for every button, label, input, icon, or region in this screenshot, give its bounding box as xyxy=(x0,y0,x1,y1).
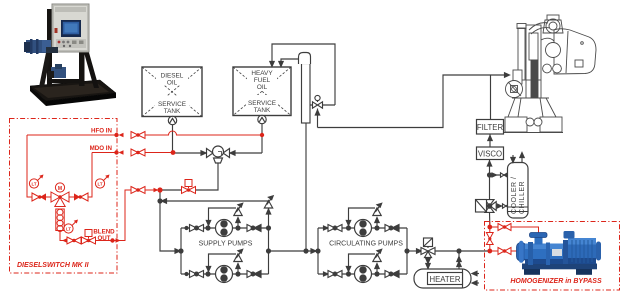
wire: suction header vertical xyxy=(160,190,177,251)
A-frame xyxy=(508,98,556,117)
motor xyxy=(568,238,596,264)
svg-text:TANK: TANK xyxy=(254,107,271,114)
HFO service tank xyxy=(233,67,291,116)
top valve housing xyxy=(543,20,563,33)
arrow into changeover valve left xyxy=(201,151,206,155)
base and feet xyxy=(505,117,527,132)
node: diesel tank drop xyxy=(171,150,176,155)
three-way valve cooler bottom xyxy=(476,200,497,213)
wire: diesel outlet drop xyxy=(172,125,174,153)
wire: HFO internal drop xyxy=(27,135,32,197)
svg-text:MDO IN: MDO IN xyxy=(90,145,113,152)
homogenizer dashed enclosure xyxy=(485,222,620,291)
frame posts xyxy=(47,9,52,86)
node: heater outlet tee xyxy=(457,249,461,253)
valve homogenizer feed xyxy=(498,224,511,231)
svg-text:SERVICE: SERVICE xyxy=(158,101,186,108)
wire: return branch from homogenizer xyxy=(490,250,519,252)
wire: deaerator drop to main line xyxy=(305,123,307,249)
base frame xyxy=(522,264,597,270)
screen xyxy=(61,20,81,37)
wire: HFO IN line xyxy=(27,134,117,136)
wire: engine return line xyxy=(318,75,508,128)
valve blend 1 xyxy=(67,237,81,244)
arrow into changeover valve right xyxy=(230,151,235,155)
node: suction header top xyxy=(158,199,162,203)
wire: cooler header riser xyxy=(489,160,491,200)
pump body xyxy=(525,244,563,265)
wire: circulating top branch xyxy=(318,227,407,229)
wire: supply top branch xyxy=(181,227,269,229)
temperature transmitter LT left xyxy=(29,175,43,189)
temperature transmitter LT right xyxy=(95,175,109,189)
valve MDO IN xyxy=(131,149,145,156)
node: blend out at box edge xyxy=(110,238,114,242)
arrow into heater xyxy=(426,259,430,264)
valve mixing left xyxy=(32,193,46,201)
steam connection arrows xyxy=(472,271,479,285)
wire: circulating suction manifold xyxy=(317,228,319,274)
valve circ pump 2 inlet xyxy=(324,271,343,278)
node: MDO IN at box edge xyxy=(114,150,118,154)
cooler top stubs xyxy=(511,153,524,163)
valve circ pump 2 outlet xyxy=(385,271,399,278)
static mixer xyxy=(56,209,64,232)
svg-text:LT: LT xyxy=(31,182,36,187)
wire: supply suction manifold xyxy=(180,228,182,274)
wire: mixer to blend out line xyxy=(60,231,66,241)
coupling flange xyxy=(563,240,568,264)
wire: visco to filter xyxy=(489,134,491,147)
right block xyxy=(554,29,596,74)
red labels xyxy=(17,128,115,270)
node: circulating manifold inlet xyxy=(316,249,320,253)
valve circ pump 1 inlet xyxy=(324,225,343,232)
VISCO box xyxy=(477,147,504,160)
wire: vent recirculation loop to tank xyxy=(272,44,335,105)
svg-text:LT: LT xyxy=(66,227,71,232)
valve homogenizer return xyxy=(498,248,511,255)
svg-text:HOMOGENIZER in BYPASS: HOMOGENIZER in BYPASS xyxy=(510,278,602,285)
wire: feed branch to homogenizer xyxy=(490,227,539,233)
pump P4 circulating xyxy=(355,266,372,283)
relief valve supply bypass xyxy=(264,196,273,228)
wire: pump overflow return line xyxy=(162,200,269,202)
wire: main line supply to circulating xyxy=(269,250,319,252)
svg-text:OIL: OIL xyxy=(167,80,178,87)
suction flange xyxy=(517,243,527,262)
wire: diesel junction to changeover valve xyxy=(173,152,206,154)
arrow into engine xyxy=(505,73,510,77)
node: HFO IN at box edge xyxy=(114,133,118,137)
svg-text:SUPPLY PUMPS: SUPPLY PUMPS xyxy=(199,241,253,248)
arrow MDO IN xyxy=(119,150,124,154)
wire: blend out exit xyxy=(96,190,132,241)
relief valve circ pump 1 loop xyxy=(346,203,381,228)
wire: discharge to heater valve xyxy=(407,250,421,252)
svg-text:LT: LT xyxy=(97,182,102,187)
node: cooler top tee xyxy=(488,173,492,177)
node: supply manifold inlet xyxy=(179,249,183,253)
wire: circulating discharge manifold xyxy=(406,228,408,274)
top inlet branch xyxy=(535,237,543,245)
arrow into HFO tank xyxy=(270,62,274,67)
diesel oil service tank xyxy=(142,67,202,117)
relief valve pump 2 loop xyxy=(206,249,242,274)
wire: MDO IN to diesel tank drop xyxy=(145,152,173,154)
valve supply pump 2 inlet xyxy=(185,271,204,278)
svg-text:DIESEL: DIESEL xyxy=(161,73,184,80)
node: HFO tank drop xyxy=(260,133,264,137)
valve dieselswitch bypass with actuator xyxy=(182,180,196,194)
HFO tank outlet strainer xyxy=(258,115,266,123)
wire: circulating bottom branch xyxy=(318,273,407,275)
cylinder unit xyxy=(518,28,525,80)
valve supply pump 1 outlet xyxy=(247,225,261,232)
valve blend 2 with actuator xyxy=(82,230,96,245)
valve mixing right xyxy=(74,193,88,201)
deaerator column xyxy=(299,53,311,124)
buttons xyxy=(56,39,86,48)
svg-text:TANK: TANK xyxy=(164,108,181,115)
base platform xyxy=(30,80,116,101)
wire: filter to engine feed riser xyxy=(490,75,492,120)
node: pump 1 inlet xyxy=(206,226,210,230)
svg-text:SERVICE: SERVICE xyxy=(248,100,276,107)
node: pump 1 outlet xyxy=(236,226,240,230)
valve cooler top xyxy=(492,173,508,177)
svg-text:HFO IN: HFO IN xyxy=(91,128,112,135)
relief valve pump 1 loop xyxy=(206,203,242,228)
svg-text:M: M xyxy=(58,186,62,192)
wire: drop into heater inlet xyxy=(427,258,429,270)
three-way temperature control valve xyxy=(421,238,435,258)
arrow on main line xyxy=(311,249,316,253)
arrow up into visco xyxy=(487,161,491,166)
motor mixing valve M xyxy=(51,183,69,207)
wire: heater outlet riser xyxy=(458,251,460,269)
relief valve circ pump 2 loop xyxy=(346,249,381,274)
photo: engine section drawing xyxy=(503,15,596,133)
node: circ pump 1 outlet xyxy=(375,226,379,230)
svg-text:VISCO: VISCO xyxy=(478,149,502,158)
arrow into suction node xyxy=(154,188,159,192)
homogenizer machine photo xyxy=(517,231,602,275)
wire: deaerator cap overflow to tank xyxy=(281,59,299,62)
node: pump 2 outlet xyxy=(236,272,240,276)
node: deaerator drop joins xyxy=(304,249,308,253)
wire: heater valve to homogenizer box xyxy=(435,250,488,252)
wire: bypass segment to suction node xyxy=(162,189,181,191)
node: circ pump 2 inlet xyxy=(347,272,351,276)
small pump mid xyxy=(51,67,66,78)
cooler chiller vessel xyxy=(508,163,529,219)
node: circ pump 2 outlet xyxy=(375,272,379,276)
arrow on blend line xyxy=(62,238,67,242)
svg-text:HEAVY: HEAVY xyxy=(251,70,273,77)
arrow into heater valve xyxy=(417,249,422,253)
node: supply manifold top xyxy=(267,226,271,230)
pump left xyxy=(26,40,48,53)
temperature transmitter LT blend xyxy=(64,220,78,234)
changeover three-way valve xyxy=(207,146,230,163)
svg-text:COOLER /: COOLER / xyxy=(511,177,518,214)
control cabinet xyxy=(52,4,89,52)
homogenizer bypass unit xyxy=(485,222,620,291)
node: homogenizer feed tee xyxy=(487,225,492,230)
node: pump 2 inlet xyxy=(206,272,210,276)
wire: MDO IN line xyxy=(92,152,117,154)
pump P1 supply xyxy=(216,220,233,237)
svg-text:HEATER: HEATER xyxy=(429,275,460,284)
valve HFO IN xyxy=(131,132,145,139)
valve cooler bottom xyxy=(497,204,509,208)
heater vessel xyxy=(414,269,471,288)
wire: return riser into vent valve xyxy=(317,109,319,128)
arrow on overflow return xyxy=(162,199,167,203)
roller wheel xyxy=(513,70,522,84)
node: supply discharge xyxy=(267,249,271,253)
node: homogenizer return tee xyxy=(487,249,492,254)
text labels black xyxy=(158,70,526,284)
arrow out of heater xyxy=(457,257,461,262)
deaerator vent valve xyxy=(310,95,335,108)
diesel tank outlet strainer xyxy=(168,116,176,124)
arrow blend out xyxy=(116,238,121,242)
head piping xyxy=(529,23,548,30)
wire: valve to suction node xyxy=(145,189,158,191)
wire: tee to cooler top xyxy=(490,174,508,176)
node: circ pump 1 inlet xyxy=(347,226,351,230)
dieselswitch dashed enclosure xyxy=(10,119,118,274)
wire: HFO to changeover valve xyxy=(228,152,262,154)
svg-text:DIESELSWITCH MK II: DIESELSWITCH MK II xyxy=(17,262,90,269)
node: circulating discharge xyxy=(405,249,409,253)
arrow into filter xyxy=(488,136,492,141)
wire: HFO outlet drop xyxy=(261,124,263,153)
wire: red drop through tees xyxy=(489,222,491,252)
svg-text:FILTER: FILTER xyxy=(477,123,504,132)
wire: drop to homogenizer tee xyxy=(489,212,491,225)
arrow up into vent valve xyxy=(315,110,319,115)
wire: supply discharge manifold xyxy=(268,228,270,274)
valve supply pump 1 inlet xyxy=(185,225,204,232)
valve circ pump 1 outlet xyxy=(385,225,399,232)
arrow on suction header xyxy=(175,249,180,253)
wire: valve to cooler bottom xyxy=(496,205,507,207)
wire: HFO IN to tank with hop xyxy=(145,131,262,135)
svg-text:CIRCULATING PUMPS: CIRCULATING PUMPS xyxy=(329,241,403,248)
node: blend suction xyxy=(157,187,162,192)
svg-text:OUT: OUT xyxy=(97,235,110,242)
pump P3 circulating xyxy=(355,220,372,237)
arrow HFO IN xyxy=(119,133,124,137)
pump P2 supply xyxy=(216,266,233,283)
wire: changeover valve outlet xyxy=(196,163,218,190)
svg-text:OIL: OIL xyxy=(257,84,268,91)
valve bypass vertical xyxy=(486,233,493,245)
valve supply pump 2 outlet xyxy=(247,271,261,278)
svg-text:FUEL: FUEL xyxy=(254,77,271,84)
FILTER box xyxy=(477,120,504,135)
valve blend outside xyxy=(131,187,145,194)
arrow overflow into tank xyxy=(279,62,283,67)
svg-text:CHILLER: CHILLER xyxy=(519,181,526,214)
wire: MDO internal drop xyxy=(88,153,92,198)
photo: dieselswitch skid unit xyxy=(24,4,116,106)
wire: left valve to M valve xyxy=(46,196,74,198)
wire: supply bottom branch xyxy=(181,273,269,275)
